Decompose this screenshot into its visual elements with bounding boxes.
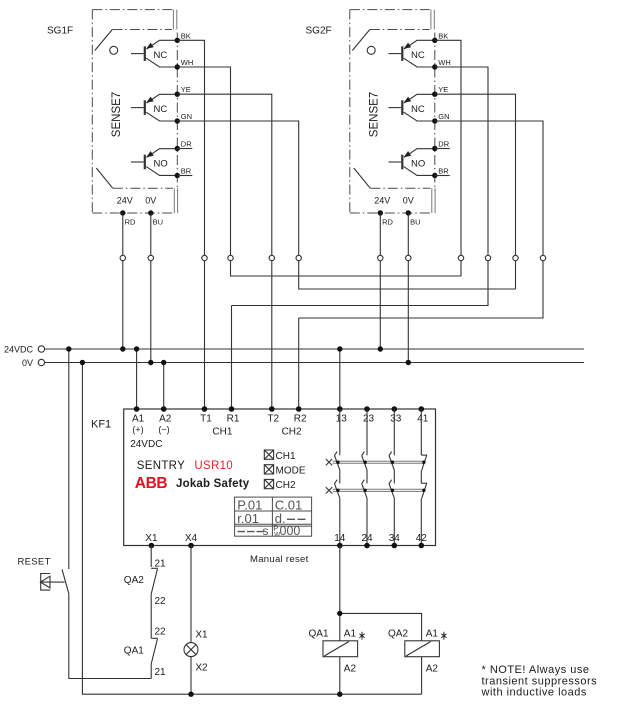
wire R1 drop (231, 306, 233, 410)
svg-text:41: 41 (417, 413, 429, 424)
indicator checkbox MODE (264, 465, 273, 474)
svg-text:NC: NC (411, 104, 425, 115)
contact crossing dots 41-42 (422, 461, 425, 464)
svg-text:USR10: USR10 (194, 460, 233, 472)
svg-text:DR: DR (438, 140, 449, 149)
terminal X4 (KF1 bottom) (188, 543, 194, 549)
sensor SG1F bottom connector double line (174, 188, 177, 213)
0V bus wire (45, 362, 584, 364)
wire QA1 coil to 0V (339, 657, 341, 695)
svg-text:SG2F: SG2F (306, 26, 332, 37)
terminal A2 (KF1 top) (161, 406, 167, 412)
svg-text:ABB: ABB (135, 475, 168, 492)
svg-text:SENSE7: SENSE7 (369, 92, 381, 137)
svg-text:GN: GN (438, 112, 449, 121)
transistor output NO3 (SG1F) (131, 149, 177, 176)
wire 0V to A2 (163, 363, 165, 410)
transistor output NO3 (SG2F) (389, 149, 435, 176)
wire GN SG1F to YE SG2F (177, 121, 515, 289)
sensor SG1F housing right edge (176, 33, 178, 192)
svg-text:21: 21 (155, 559, 167, 570)
svg-text:A2: A2 (159, 413, 172, 424)
connector ring at x=298.7 (296, 255, 301, 260)
stub wire BR (SG1F) (177, 175, 192, 177)
junction 24VDC bus x=122.8 (120, 346, 125, 351)
contact linkage row 1 (333, 461, 425, 463)
connector ring at x=271.8 (269, 255, 274, 260)
terminal 23 (KF1 top) (364, 406, 370, 412)
svg-text:(−): (−) (158, 424, 169, 434)
junction 0V bus x=150.8 (148, 360, 153, 365)
terminal BK (SG2F) (432, 38, 437, 43)
svg-text:GN: GN (181, 112, 192, 121)
svg-text:MODE: MODE (276, 466, 306, 477)
sensor SG2F housing top edge (350, 9, 432, 11)
sensor SG1F actuator lever bottom (96, 168, 113, 188)
wire BK SG1F to T1 (177, 40, 204, 409)
svg-text:14: 14 (334, 533, 346, 544)
svg-text:r.01: r.01 (237, 511, 259, 526)
indicator checkbox CH2 (264, 479, 273, 488)
terminal 0V (SG1F) (148, 210, 153, 215)
wire lamp X2 to 0V (190, 657, 192, 695)
NC contact QA1 22-21 (151, 638, 158, 678)
svg-text:24VDC: 24VDC (4, 345, 34, 355)
terminal GN (SG2F) (432, 118, 437, 123)
connector ring at x=150.8 (148, 255, 153, 260)
sensor SG2F inner bottom edge (370, 187, 430, 189)
junction QA1 return (337, 692, 342, 697)
svg-text:YE: YE (181, 85, 191, 94)
0V bus terminal circle (38, 359, 44, 365)
sensor SG2F top connector double line (431, 10, 434, 30)
svg-text:BU: BU (410, 218, 420, 227)
svg-text:BK: BK (181, 31, 191, 40)
terminal 41 (KF1 top) (419, 406, 425, 412)
connector ring at x=204.5 (202, 255, 207, 260)
coil QA2 (405, 641, 440, 657)
svg-text:BU: BU (153, 218, 163, 227)
sensor SG2F actuator circle (367, 46, 375, 54)
sensor SG1F top connector double line (173, 10, 176, 30)
svg-text:X1: X1 (145, 533, 158, 544)
svg-text:RD: RD (382, 218, 393, 227)
terminal WH (SG1F) (175, 64, 180, 69)
svg-text:KF1: KF1 (91, 419, 111, 431)
svg-text:X1: X1 (195, 630, 208, 641)
sensor SG2F housing left edge (349, 10, 351, 213)
sensor SG1F inner bottom edge (113, 187, 173, 189)
connector ring at x=461 (458, 255, 463, 260)
safety relay KF1 outline (124, 409, 436, 546)
terminal T1 (KF1 top) (202, 406, 208, 412)
terminal 0V (SG2F) (406, 210, 411, 215)
NO contact 13-14 (KF1) (335, 409, 341, 546)
svg-text:NC: NC (411, 50, 425, 61)
svg-text:NC: NC (154, 104, 168, 115)
svg-text:RESET: RESET (18, 557, 51, 568)
NC contact 41-42 (KF1) (421, 409, 427, 546)
svg-text:A1: A1 (344, 629, 357, 640)
svg-text:R2: R2 (294, 413, 307, 424)
svg-text:22: 22 (155, 627, 167, 638)
RESET switch NO contact (62, 569, 69, 594)
wire 0V drop to lamp return (82, 363, 421, 695)
24VDC bus wire (45, 348, 584, 350)
svg-text:0V: 0V (403, 195, 414, 205)
wire 24VDC to A1 (136, 349, 138, 409)
svg-text:NO: NO (154, 158, 168, 169)
sensor SG1F housing bottom edge (92, 212, 174, 214)
svg-text:CH1: CH1 (212, 426, 232, 437)
svg-text:CH2: CH2 (282, 426, 302, 437)
NC contact QA2 21-22 (151, 568, 158, 638)
terminal X1 (KF1 bottom) (149, 543, 155, 549)
svg-text:X2: X2 (195, 663, 208, 674)
svg-text:24: 24 (361, 533, 373, 544)
svg-text:* NOTE! Always use: * NOTE! Always use (482, 664, 590, 676)
svg-text:BR: BR (181, 167, 192, 176)
indicator checkbox CH1 (264, 450, 273, 459)
terminal 34 (KF1 bottom) (392, 543, 398, 549)
svg-text:DR: DR (181, 140, 192, 149)
NO contact 23-24 (KF1) (362, 409, 368, 546)
suppressor asterisk (QA2) (441, 632, 446, 640)
sensor SG2F actuator lever bottom (354, 168, 371, 188)
svg-text:Manual reset: Manual reset (250, 554, 309, 565)
svg-text:34: 34 (389, 533, 401, 544)
svg-text:A1: A1 (426, 629, 439, 640)
svg-text:QA1: QA1 (309, 629, 329, 640)
stub wire BR (SG2F) (435, 175, 450, 177)
transistor output NC1 (SG2F) (389, 40, 435, 67)
terminal BR (SG2F) (432, 173, 437, 178)
svg-text:QA1: QA1 (124, 646, 144, 657)
sensor SG1F actuator circle (110, 46, 118, 54)
connector ring at x=380.3 (378, 255, 383, 260)
note text (481, 664, 598, 698)
wire GN SG2F to R2 (299, 121, 543, 318)
terminal 13 (KF1 top) (337, 406, 343, 412)
sensor SG1F housing left edge (91, 10, 93, 213)
transistor output NC2 (SG1F) (131, 94, 177, 121)
contact linkage row 2 (333, 489, 425, 491)
wire RD SG1F to 24VDC bus (122, 213, 124, 349)
sensor block SG1F (92, 10, 193, 227)
junction 0V bus x=82.4 (80, 360, 85, 365)
contact crossing dots 33-34 (391, 461, 394, 464)
connector ring at x=408.3 (406, 255, 411, 260)
terminal 24V (SG1F) (120, 210, 125, 215)
sensor SG2F bottom connector double line (432, 188, 435, 213)
svg-text:QA2: QA2 (388, 629, 408, 640)
sensor SG1F housing top edge (92, 9, 174, 11)
linkage cross row 2 (326, 487, 332, 493)
sensor SG1F actuator lever top (95, 30, 113, 51)
svg-text:(+): (+) (132, 424, 143, 434)
terminal R2 (KF1 top) (296, 406, 302, 412)
sensor SG2F inner top edge (370, 29, 430, 31)
svg-text:24V: 24V (374, 195, 390, 205)
svg-text:42: 42 (416, 533, 428, 544)
junction 24VDC bus x=68.8 (66, 346, 71, 351)
terminal YE (SG1F) (175, 92, 180, 97)
svg-text:SENSE7: SENSE7 (111, 92, 123, 137)
svg-text:33: 33 (390, 413, 402, 424)
wire RD SG2F to 24VDC bus (379, 213, 381, 349)
svg-text:SG1F: SG1F (47, 26, 73, 37)
terminal 24 (KF1 bottom) (364, 543, 370, 549)
svg-text:T1: T1 (200, 413, 212, 424)
svg-text:YE: YE (438, 85, 448, 94)
svg-text:BR: BR (438, 167, 449, 176)
wire RESET to QA1 (69, 594, 151, 679)
suppressor asterisk (QA1) (359, 632, 364, 640)
svg-text:13: 13 (336, 413, 348, 424)
transistor output NC1 (SG1F) (131, 40, 177, 67)
junction coil branch (337, 611, 342, 616)
wire BK SG2F down (435, 40, 461, 276)
terminal T2 (KF1 top) (269, 406, 275, 412)
terminal 24V (SG2F) (378, 210, 383, 215)
svg-text:A2: A2 (344, 664, 357, 675)
svg-text:23: 23 (363, 413, 375, 424)
stub wire DR (SG1F) (177, 148, 192, 150)
sensor SG2F actuator lever top (352, 30, 370, 51)
svg-text:with inductive loads: with inductive loads (481, 686, 587, 698)
svg-text:T2: T2 (267, 413, 279, 424)
svg-text:CH2: CH2 (276, 480, 296, 491)
terminal 33 (KF1 top) (392, 406, 398, 412)
terminal YE (SG2F) (432, 92, 437, 97)
svg-text:0V: 0V (22, 358, 33, 368)
24VDC bus terminal circle (38, 346, 44, 352)
terminal GN (SG1F) (175, 118, 180, 123)
connector ring at x=543 (540, 255, 545, 260)
stub wire DR (SG2F) (435, 148, 450, 150)
wire QA2 coil to 0V (421, 657, 423, 695)
terminal A1 (KF1 top) (134, 406, 140, 412)
svg-text:Jokab Safety: Jokab Safety (176, 478, 250, 490)
wire X1 to QA2 (150, 546, 152, 568)
svg-text:R1: R1 (227, 413, 240, 424)
junction 0V bus x=408.3 (406, 360, 411, 365)
svg-text:WH: WH (181, 58, 194, 67)
svg-text:21: 21 (155, 667, 167, 678)
sensor block SG2F (350, 10, 451, 227)
svg-text:BK: BK (438, 31, 448, 40)
terminal DR (SG2F) (432, 146, 437, 151)
wire YE SG2F down (435, 94, 516, 289)
connector ring at x=230.5 (228, 255, 233, 260)
svg-text:A2: A2 (426, 664, 439, 675)
terminal 14 (KF1 bottom) (337, 543, 343, 549)
svg-text:A1: A1 (132, 413, 145, 424)
wire BU SG2F to 0V bus (407, 213, 409, 363)
junction 0V bus x=163.7 (161, 360, 166, 365)
svg-text:CH1: CH1 (276, 451, 296, 462)
svg-text:SENTRY: SENTRY (137, 460, 185, 472)
svg-text:000: 000 (280, 524, 301, 538)
wire WH SG1F to BK SG2F (177, 67, 461, 276)
svg-text:QA2: QA2 (124, 575, 144, 586)
svg-text:NO: NO (411, 158, 425, 169)
contact crossing dots 23-24 (363, 461, 366, 464)
linkage cross row 1 (326, 459, 332, 465)
NO contact 33-34 (KF1) (389, 409, 395, 546)
wire X4 to lamp X1 (190, 546, 192, 643)
svg-text:24VDC: 24VDC (130, 439, 162, 450)
sensor SG2F housing right edge (434, 33, 436, 192)
wire 24VDC to RESET (68, 349, 70, 569)
junction 24VDC bus x=339.8 (337, 346, 342, 351)
junction lamp return (188, 692, 193, 697)
sensor SG1F inner top edge (112, 29, 172, 31)
terminal 42 (KF1 bottom) (419, 543, 425, 549)
sensor SG2F housing bottom edge (350, 212, 432, 214)
indicator lamp X1 (184, 643, 198, 657)
svg-text:22: 22 (155, 596, 167, 607)
contact crossing dots 13-14 (336, 461, 339, 464)
connector ring at x=122.8 (120, 255, 125, 260)
display table frame (235, 497, 312, 536)
wire BU SG1F to 0V bus (150, 213, 152, 363)
transistor output NC2 (SG2F) (389, 94, 435, 121)
wire WH SG2F to R1 (232, 67, 489, 306)
svg-text:RD: RD (125, 218, 136, 227)
wire 24VDC to terminal 13 (339, 349, 341, 409)
wire 14 to coils (340, 546, 422, 641)
connector ring at x=488 (485, 255, 490, 260)
connector ring at x=515.5 (513, 255, 518, 260)
pushbutton actuator (40, 574, 64, 591)
svg-text:24V: 24V (117, 195, 133, 205)
junction 24VDC bus x=380.3 (378, 346, 383, 351)
svg-text:0V: 0V (145, 195, 156, 205)
coil QA1 (323, 641, 358, 657)
terminal BK (SG1F) (175, 38, 180, 43)
svg-text:X4: X4 (185, 533, 198, 544)
terminal R1 (KF1 top) (229, 406, 235, 412)
svg-text:NC: NC (154, 50, 168, 61)
wire R2 drop (298, 318, 300, 409)
terminal WH (SG2F) (432, 64, 437, 69)
terminal BR (SG1F) (175, 173, 180, 178)
junction 24VDC bus x=136.6 (134, 346, 139, 351)
wire YE SG1F to T2 (177, 94, 271, 409)
svg-text:WH: WH (438, 58, 451, 67)
terminal DR (SG1F) (175, 146, 180, 151)
